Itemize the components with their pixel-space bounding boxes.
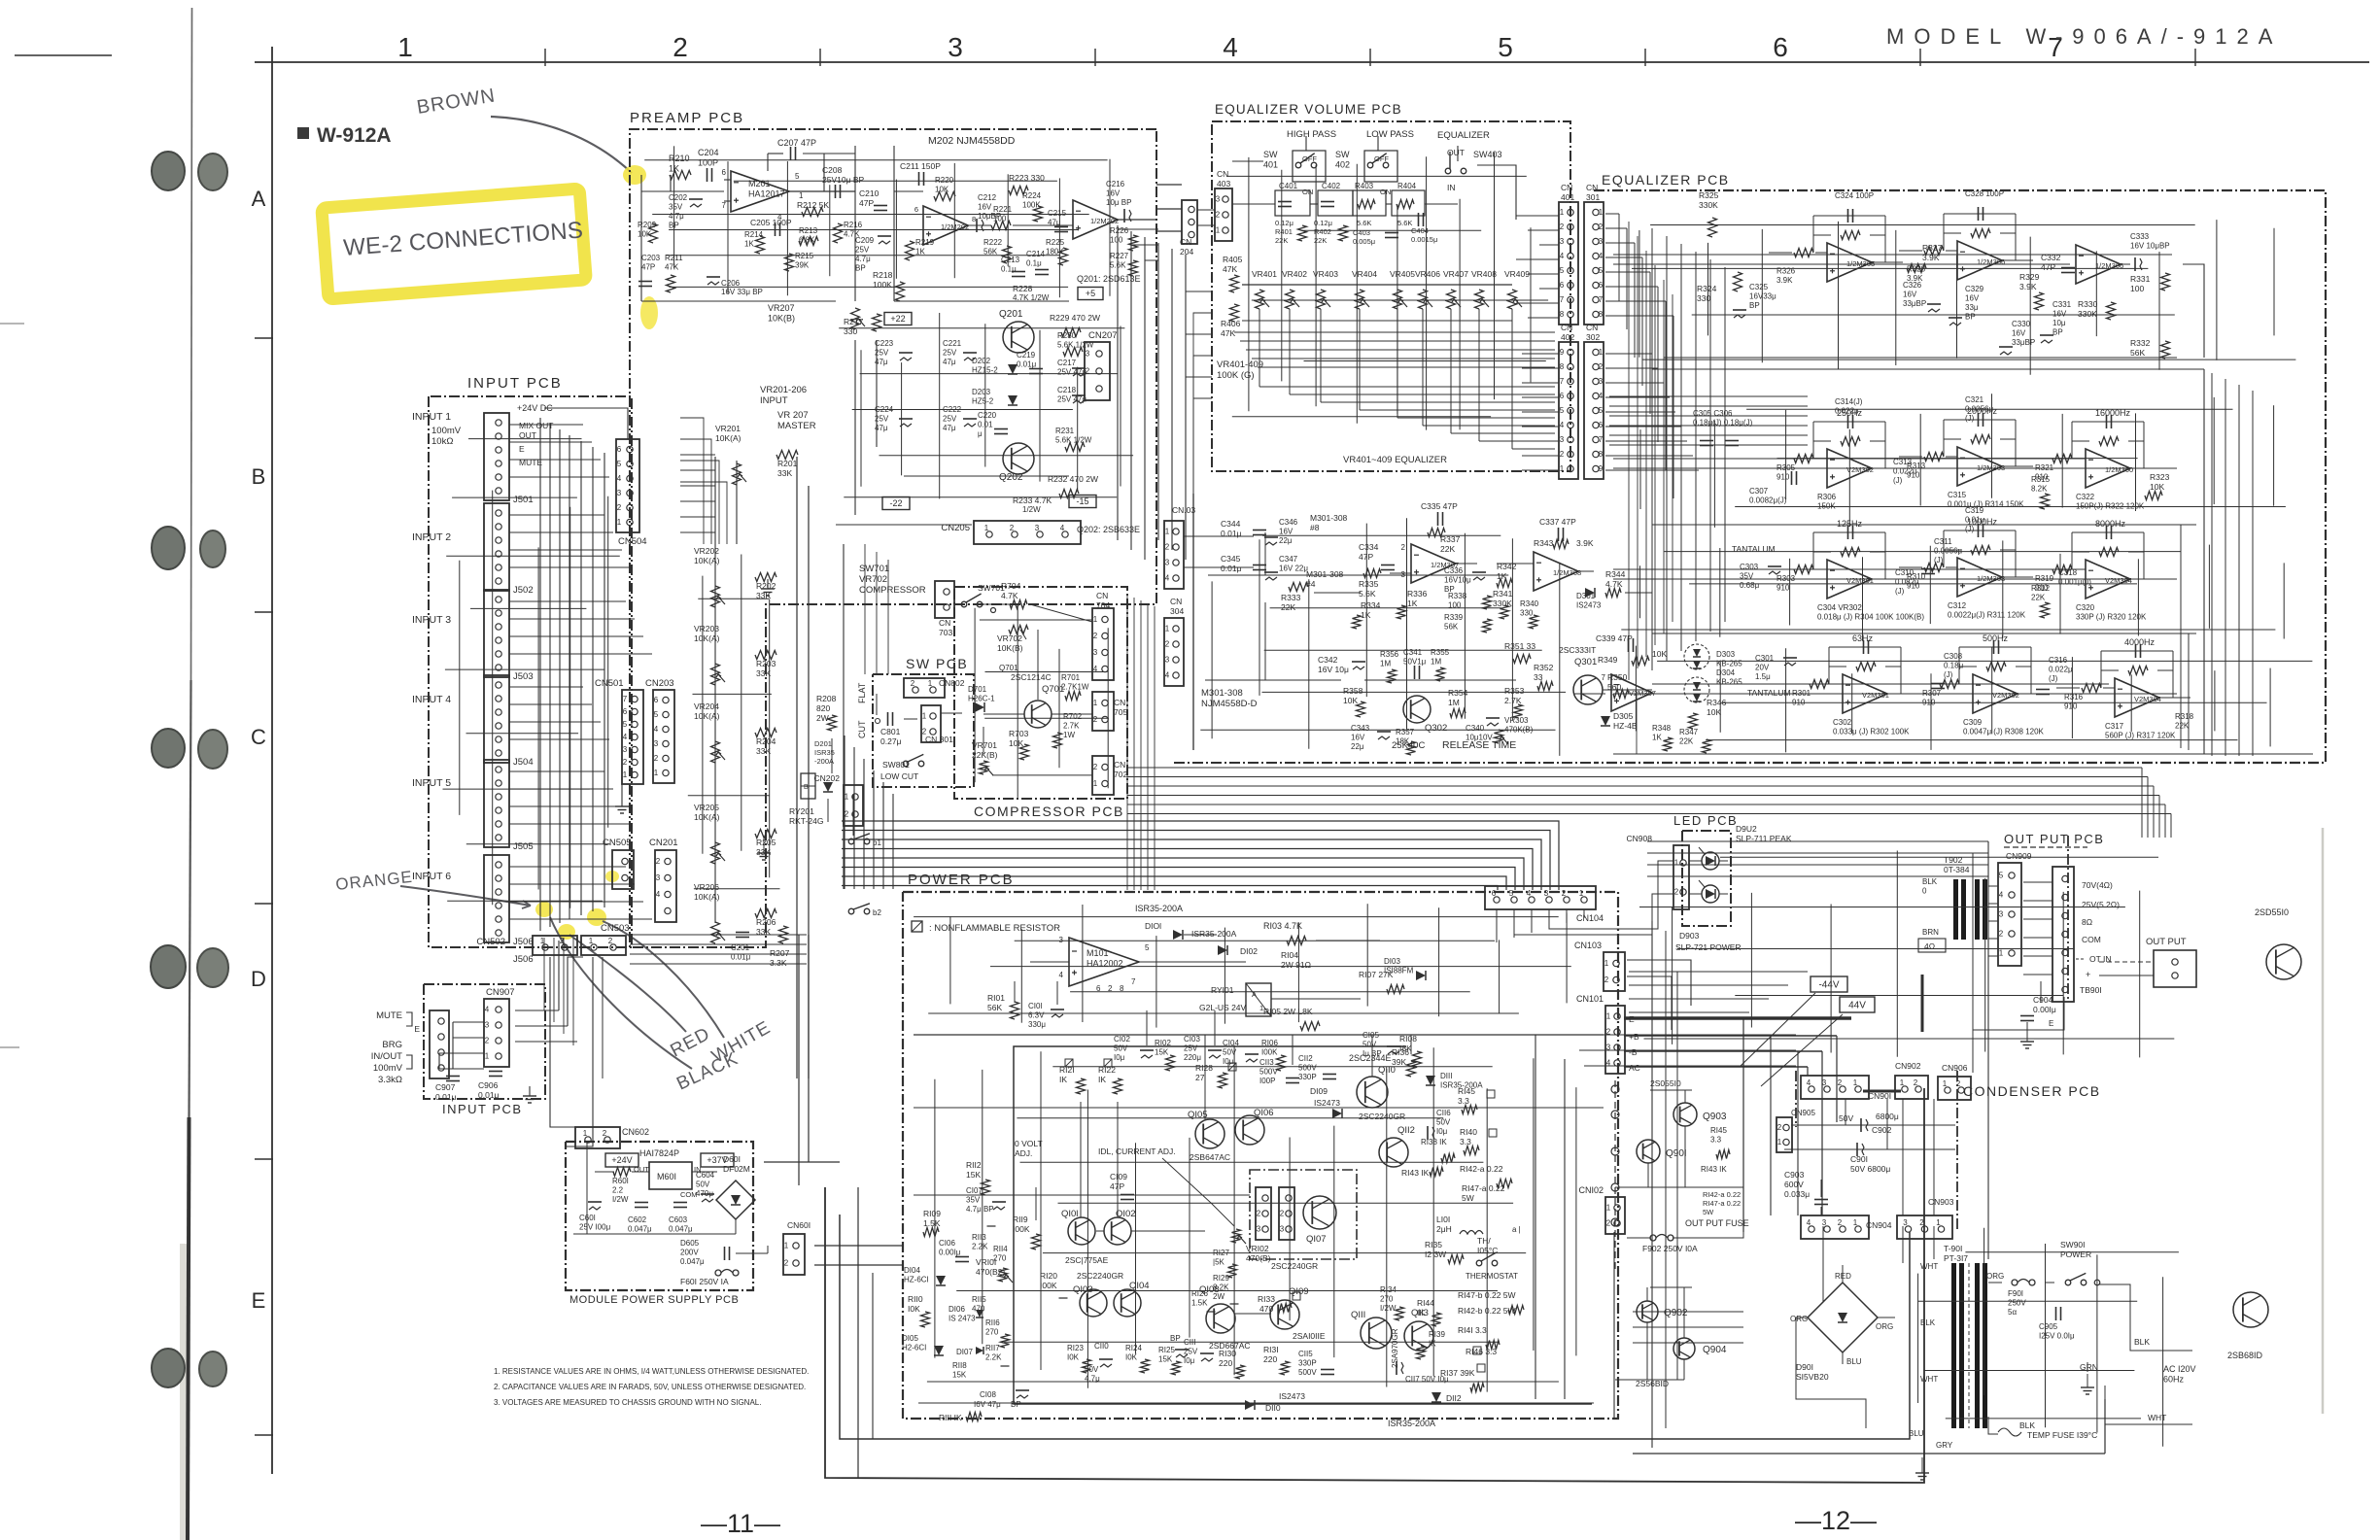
svg-text:3: 3 bbox=[1999, 910, 2004, 919]
svg-text:R341: R341 bbox=[1493, 589, 1513, 599]
connector CN902 bbox=[1895, 1076, 1928, 1099]
svg-text:VR405: VR405 bbox=[1390, 269, 1415, 279]
svg-text:220: 220 bbox=[1263, 1354, 1277, 1364]
wire input bus v bbox=[592, 447, 594, 911]
svg-text:R702: R702 bbox=[1063, 712, 1083, 721]
svg-text:MODEL W-906A/-912A: MODEL W-906A/-912A bbox=[1886, 24, 2282, 49]
svg-text:I25V 0.0Iμ: I25V 0.0Iμ bbox=[2039, 1332, 2075, 1341]
svg-text:3.3: 3.3 bbox=[1710, 1136, 1722, 1145]
wire eq feed v bbox=[1637, 236, 1638, 668]
svg-text:25V I00μ: 25V I00μ bbox=[579, 1223, 611, 1232]
svg-text:2: 2 bbox=[1674, 888, 1679, 897]
svg-text:15K: 15K bbox=[952, 1371, 967, 1380]
op-amp M202-a bbox=[923, 206, 968, 245]
svg-text:ADJ.: ADJ. bbox=[1015, 1148, 1032, 1158]
wire input row bbox=[509, 549, 622, 551]
svg-text:M301-308: M301-308 bbox=[1310, 513, 1348, 523]
op-amp M307r4 bbox=[1611, 674, 1652, 711]
transistor Q108 bbox=[1206, 1304, 1235, 1333]
wire cn103 area bbox=[1629, 971, 1808, 973]
label +22 box bbox=[884, 313, 912, 325]
svg-text:910: 910 bbox=[1776, 473, 1790, 482]
svg-text:100K: 100K bbox=[873, 280, 892, 290]
svg-text:VR701: VR701 bbox=[972, 740, 997, 750]
yellow dot CN505 a bbox=[535, 902, 553, 917]
svg-text:R221: R221 bbox=[993, 205, 1013, 214]
svg-text:2: 2 bbox=[1562, 889, 1567, 898]
svg-text:CII7 50V I0μ: CII7 50V I0μ bbox=[1405, 1375, 1449, 1384]
resistor R207 bbox=[779, 926, 788, 943]
svg-text:IS2473: IS2473 bbox=[1279, 1391, 1305, 1401]
svg-text:C330: C330 bbox=[2012, 320, 2031, 328]
svg-text:250V: 250V bbox=[2008, 1299, 2026, 1308]
svg-text:15K: 15K bbox=[1158, 1355, 1173, 1364]
svg-text:R334: R334 bbox=[1361, 600, 1381, 610]
svg-text:J501: J501 bbox=[513, 495, 534, 505]
svg-text:1: 1 bbox=[1093, 779, 1098, 788]
page border top rule bbox=[255, 61, 2369, 63]
svg-text:2SC1214C: 2SC1214C bbox=[1011, 672, 1052, 682]
svg-text:8: 8 bbox=[1599, 450, 1604, 459]
wire eq feed h bbox=[1609, 415, 1808, 417]
capacitor C401 bbox=[1275, 190, 1310, 216]
wire input row bbox=[509, 514, 604, 516]
svg-text:CI0l: CI0l bbox=[1028, 1002, 1042, 1010]
svg-text:1: 1 bbox=[799, 191, 804, 200]
svg-text:C215: C215 bbox=[1048, 209, 1067, 218]
pot VR203 bbox=[711, 664, 720, 685]
wire right column verts bbox=[1651, 921, 1653, 1448]
svg-text:IN: IN bbox=[1447, 183, 1456, 192]
diode D701 bbox=[975, 702, 984, 712]
svg-text:R402: R402 bbox=[1314, 227, 1331, 236]
svg-text:INPUT PCB: INPUT PCB bbox=[467, 375, 563, 392]
svg-text:RI28: RI28 bbox=[1195, 1063, 1213, 1073]
wire eq feed h bbox=[1609, 405, 1808, 407]
svg-text:3: 3 bbox=[654, 739, 659, 748]
wire sw-power bundle v bbox=[882, 782, 884, 889]
svg-text:4: 4 bbox=[654, 725, 659, 734]
wire preamp long v1 bbox=[796, 457, 798, 1078]
connector TB901 bbox=[2052, 867, 2074, 1002]
svg-text:CONDENSER PCB: CONDENSER PCB bbox=[1963, 1083, 2101, 1099]
wire t902-cn909 bbox=[1988, 885, 1998, 887]
svg-text:CII5: CII5 bbox=[1298, 1350, 1313, 1358]
wire m301 mesh2 bbox=[1314, 592, 1361, 594]
svg-text:CN906: CN906 bbox=[1942, 1063, 1968, 1073]
svg-text:820: 820 bbox=[816, 703, 830, 713]
connector CN802 bbox=[904, 678, 945, 698]
connector CN102 bbox=[1605, 1197, 1625, 1234]
wire eq feed v bbox=[1680, 309, 1682, 610]
wire eq feed v bbox=[1663, 280, 1665, 633]
svg-text:BLK: BLK bbox=[1922, 877, 1938, 886]
svg-text:BP: BP bbox=[1749, 301, 1760, 310]
svg-text:3: 3 bbox=[1086, 350, 1090, 359]
ground c904 bbox=[2020, 1041, 2034, 1043]
svg-text:100: 100 bbox=[2130, 284, 2144, 293]
svg-text:0.18μ: 0.18μ bbox=[1944, 662, 1964, 670]
svg-text:RI39: RI39 bbox=[1429, 1330, 1445, 1339]
svg-text:Q202: Q202 bbox=[999, 472, 1023, 483]
svg-text:4: 4 bbox=[656, 890, 661, 899]
transistor Q904 bbox=[1673, 1338, 1695, 1359]
svg-text:J504: J504 bbox=[513, 757, 534, 768]
svg-text:DI07: DI07 bbox=[956, 1348, 973, 1356]
svg-text:MASTER: MASTER bbox=[777, 421, 816, 431]
svg-text:8: 8 bbox=[1560, 310, 1565, 319]
svg-text:2SA970GR: 2SA970GR bbox=[1391, 1328, 1399, 1368]
svg-text:702: 702 bbox=[1114, 770, 1127, 779]
svg-text:R328: R328 bbox=[1907, 265, 1926, 274]
wire condenser-t901 bbox=[1822, 1226, 1824, 1302]
svg-text:470(B): 470(B) bbox=[1246, 1253, 1271, 1263]
svg-text:220μ: 220μ bbox=[1184, 1053, 1201, 1062]
svg-text:VR207: VR207 bbox=[768, 303, 795, 313]
svg-text:R331: R331 bbox=[2130, 274, 2151, 284]
wire preamp-input link bbox=[680, 454, 715, 456]
svg-text:CN502: CN502 bbox=[476, 937, 505, 947]
svg-text:7: 7 bbox=[1602, 673, 1606, 682]
svg-text:R60I: R60I bbox=[612, 1177, 629, 1185]
wire cn502 down bbox=[550, 957, 575, 1127]
wire cn504 over bbox=[544, 408, 628, 439]
wire q902 feed bbox=[1633, 1311, 1743, 1313]
svg-text:2SB647AC: 2SB647AC bbox=[1190, 1152, 1230, 1162]
scan artefact right edge bbox=[2322, 828, 2325, 1414]
svg-text:0.0015μ: 0.0015μ bbox=[1411, 235, 1437, 244]
svg-text:35V: 35V bbox=[669, 203, 683, 212]
svg-text:4.7K: 4.7K bbox=[1001, 591, 1018, 600]
svg-text:2: 2 bbox=[1560, 222, 1565, 231]
svg-text:2W: 2W bbox=[1213, 1292, 1224, 1301]
wire input row bbox=[509, 918, 652, 920]
svg-text:9: 9 bbox=[1560, 348, 1565, 357]
svg-text:6: 6 bbox=[914, 205, 918, 214]
connector CN901 bbox=[1801, 1076, 1869, 1099]
connector CN401 bbox=[1559, 202, 1578, 325]
svg-text:0.033μ (J) R302 100K: 0.033μ (J) R302 100K bbox=[1833, 728, 1910, 736]
diode D301 bbox=[1585, 588, 1595, 598]
svg-text:3.9K: 3.9K bbox=[2019, 282, 2037, 291]
svg-text:EQUALIZER VOLUME PCB: EQUALIZER VOLUME PCB bbox=[1215, 102, 1402, 117]
svg-text:25V10μ BP: 25V10μ BP bbox=[822, 175, 865, 185]
bridge rectifier D901 bbox=[1808, 1283, 1878, 1352]
svg-text:R704: R704 bbox=[1001, 581, 1021, 591]
svg-text:33μBP: 33μBP bbox=[1903, 299, 1926, 308]
svg-text:1: 1 bbox=[1999, 949, 2004, 958]
ground input pcb bbox=[523, 1095, 536, 1097]
svg-text:16V 33μ BP: 16V 33μ BP bbox=[721, 288, 763, 296]
svg-text:I0μ: I0μ bbox=[1436, 1127, 1448, 1136]
wire mid bundle h bbox=[842, 868, 1515, 891]
diode-pair D304 bbox=[1684, 677, 1709, 702]
wire VR402 drop bbox=[1289, 309, 1291, 394]
svg-text:10K(A): 10K(A) bbox=[694, 556, 720, 565]
transformer T902 bbox=[1953, 879, 1958, 940]
svg-text:4: 4 bbox=[1527, 889, 1532, 898]
svg-text:CN: CN bbox=[1561, 323, 1572, 332]
svg-text:1: 1 bbox=[1604, 959, 1609, 968]
svg-text:C905: C905 bbox=[2039, 1322, 2058, 1331]
svg-text:1W: 1W bbox=[1063, 731, 1075, 739]
wire sw-power bundle v bbox=[873, 770, 875, 889]
wire mesh eq volume bbox=[1226, 175, 1527, 177]
svg-text:(J): (J) bbox=[1965, 414, 1975, 423]
svg-text:R329: R329 bbox=[2019, 272, 2040, 282]
svg-text:4.7μ: 4.7μ bbox=[855, 255, 871, 263]
svg-text:RI24: RI24 bbox=[1125, 1344, 1142, 1352]
wire cn103 out bbox=[1627, 960, 1691, 1006]
svg-text:(J): (J) bbox=[1895, 587, 1905, 596]
wire input row bbox=[509, 738, 609, 740]
grid tick row 4 bbox=[255, 1434, 273, 1436]
svg-text:16V: 16V bbox=[1965, 294, 1980, 303]
wire m201 out bbox=[789, 190, 855, 192]
resistor R206 bbox=[755, 909, 776, 918]
wire cn302 right bbox=[1605, 367, 1658, 369]
svg-text:IK: IK bbox=[1098, 1075, 1106, 1084]
svg-text:2: 2 bbox=[1606, 1219, 1611, 1228]
svg-text:6.8K: 6.8K bbox=[799, 236, 815, 245]
svg-text:VR401-409: VR401-409 bbox=[1217, 359, 1263, 370]
svg-text:RI36: RI36 bbox=[1392, 1047, 1409, 1057]
connector CN903 bbox=[1897, 1215, 1952, 1239]
wire upper bundle h bbox=[1127, 785, 2154, 787]
svg-text:2: 2 bbox=[1604, 975, 1609, 984]
svg-text:2: 2 bbox=[654, 754, 659, 763]
svg-text:3.3K: 3.3K bbox=[770, 958, 787, 968]
svg-text:1: 1 bbox=[1579, 889, 1584, 898]
svg-text:R404: R404 bbox=[1397, 182, 1417, 190]
svg-text:2: 2 bbox=[1599, 222, 1604, 231]
svg-text:Q302: Q302 bbox=[1425, 723, 1447, 734]
svg-text:3: 3 bbox=[1822, 1218, 1827, 1227]
wire t901 gnd bbox=[1987, 1434, 1989, 1454]
svg-text:C333: C333 bbox=[2130, 232, 2150, 241]
wire cn104 drops bbox=[1496, 909, 1498, 942]
svg-text:R355: R355 bbox=[1431, 648, 1450, 657]
wire preamp long v2 bbox=[808, 486, 810, 1078]
svg-text:b2: b2 bbox=[873, 908, 881, 917]
svg-text:C218: C218 bbox=[1057, 386, 1077, 394]
fuse F601 bbox=[715, 1270, 721, 1276]
wire input row bbox=[509, 635, 643, 637]
svg-text:INPUT 3: INPUT 3 bbox=[412, 614, 451, 626]
svg-text:5: 5 bbox=[795, 172, 800, 181]
svg-text:1: 1 bbox=[654, 769, 659, 777]
svg-text:10K(A): 10K(A) bbox=[694, 812, 720, 822]
INPUT PCB border bbox=[429, 396, 632, 947]
svg-text:COMPRESSOR: COMPRESSOR bbox=[859, 585, 926, 596]
wire eq right drops bbox=[2211, 373, 2213, 756]
svg-text:HZ-6CI: HZ-6CI bbox=[904, 1276, 929, 1284]
svg-text:4: 4 bbox=[623, 733, 628, 741]
svg-text:3: 3 bbox=[1560, 237, 1565, 246]
wire mesh preamp mid bbox=[839, 327, 1124, 329]
svg-text:2: 2 bbox=[1010, 524, 1015, 532]
wire VR409 drop bbox=[1511, 309, 1513, 449]
svg-text:2: 2 bbox=[1093, 715, 1098, 724]
yellow dot CN201 bbox=[587, 908, 606, 926]
svg-text:50V: 50V bbox=[1114, 1044, 1128, 1053]
svg-text:15K: 15K bbox=[966, 1170, 981, 1180]
svg-text:D701: D701 bbox=[968, 685, 987, 694]
svg-text:910: 910 bbox=[1776, 584, 1790, 593]
svg-text:INPUT 2: INPUT 2 bbox=[412, 531, 451, 543]
svg-text:+22: +22 bbox=[890, 314, 905, 324]
svg-text:70V(4Ω): 70V(4Ω) bbox=[2082, 880, 2113, 890]
svg-text:C223: C223 bbox=[875, 339, 894, 348]
wire +B bbox=[1624, 1035, 1837, 1037]
wire VR408 drop bbox=[1478, 309, 1480, 441]
transistor Q105 bbox=[1195, 1119, 1224, 1148]
svg-text:BLK: BLK bbox=[1920, 1318, 1936, 1327]
svg-text:R228: R228 bbox=[1013, 284, 1033, 293]
wire cn301 right bbox=[1605, 242, 1635, 244]
svg-text:Q201: Q201 bbox=[999, 309, 1023, 320]
svg-text:47P: 47P bbox=[641, 263, 655, 272]
svg-text:HIGH PASS: HIGH PASS bbox=[1287, 129, 1336, 140]
svg-text:2: 2 bbox=[1165, 543, 1170, 552]
resistor R203 bbox=[755, 651, 776, 660]
wire input row bbox=[509, 653, 652, 655]
svg-text:SW701: SW701 bbox=[859, 564, 889, 574]
svg-text:3: 3 bbox=[1599, 377, 1604, 386]
connector J502 bbox=[484, 503, 509, 591]
wire mesh preamp lower bbox=[698, 598, 769, 599]
svg-text:R349: R349 bbox=[1598, 655, 1618, 665]
svg-text:R323: R323 bbox=[2150, 472, 2170, 482]
svg-text:R306: R306 bbox=[1817, 493, 1837, 501]
svg-text:SW: SW bbox=[1335, 150, 1350, 159]
svg-text:IK: IK bbox=[1417, 1308, 1425, 1318]
resistor R216 bbox=[834, 223, 843, 243]
connector CN505 bbox=[612, 850, 634, 889]
capacitor C402 bbox=[1318, 190, 1353, 216]
svg-text:56K: 56K bbox=[987, 1003, 1002, 1012]
resistor R214 bbox=[756, 236, 765, 254]
wire cn907 mesh bbox=[453, 1021, 484, 1023]
svg-text:CN503: CN503 bbox=[601, 923, 630, 934]
bridge rectifier D601 bbox=[716, 1181, 755, 1219]
transistor Q106 bbox=[1235, 1115, 1264, 1145]
punch hole pair y=770 bbox=[152, 729, 185, 768]
svg-text:RI05 2W L8K: RI05 2W L8K bbox=[1263, 1007, 1313, 1016]
svg-text:HA12017: HA12017 bbox=[748, 189, 785, 199]
svg-text:4: 4 bbox=[1599, 392, 1604, 400]
svg-text:5.6K: 5.6K bbox=[1357, 219, 1371, 227]
connector J506 bbox=[484, 855, 509, 942]
svg-text:R214: R214 bbox=[744, 230, 764, 239]
wire cn302 right bbox=[1605, 382, 1664, 384]
svg-text:6: 6 bbox=[1773, 32, 1788, 62]
resistor R403 bbox=[1353, 190, 1386, 216]
wire input bus v bbox=[559, 429, 561, 923]
wire vr column bbox=[714, 457, 716, 923]
svg-text:5: 5 bbox=[1599, 266, 1604, 275]
svg-text:R212 5K: R212 5K bbox=[797, 200, 829, 210]
svg-text:3: 3 bbox=[1216, 195, 1221, 204]
wire input bus v bbox=[569, 435, 570, 919]
svg-text:RII8: RII8 bbox=[952, 1361, 967, 1370]
resistor R202 bbox=[755, 573, 776, 582]
svg-text:I0μ: I0μ bbox=[1184, 1356, 1195, 1365]
svg-text:IS2473: IS2473 bbox=[1576, 601, 1602, 610]
wire mesh m301 block bbox=[1262, 534, 1500, 536]
label 44V box bbox=[1840, 997, 1875, 1012]
svg-text:R401: R401 bbox=[1275, 227, 1293, 236]
svg-text:2SAI0IIE: 2SAI0IIE bbox=[1293, 1331, 1326, 1341]
op-amp M306b bbox=[2076, 245, 2121, 284]
op-amp M201 bbox=[731, 171, 789, 212]
svg-text:9: 9 bbox=[1599, 464, 1604, 473]
svg-text:+5: +5 bbox=[1086, 289, 1095, 298]
svg-text:56K: 56K bbox=[1444, 623, 1459, 632]
wire mesh power lower bbox=[1052, 1066, 1492, 1068]
svg-text:47μ: 47μ bbox=[943, 424, 956, 432]
wire eqvol left bus bbox=[1186, 291, 1212, 525]
svg-text:3.9K: 3.9K bbox=[1576, 538, 1594, 548]
wire cn206 to preamp bbox=[680, 418, 704, 544]
svg-text:INPUT 6: INPUT 6 bbox=[412, 871, 451, 882]
svg-text:0.047μ: 0.047μ bbox=[680, 1257, 705, 1266]
svg-text:56K: 56K bbox=[983, 248, 998, 257]
svg-text:VR403: VR403 bbox=[1313, 269, 1338, 279]
grid tick col 4 bbox=[1369, 49, 1371, 66]
svg-text:IS 2473: IS 2473 bbox=[949, 1315, 976, 1323]
svg-text:RI29: RI29 bbox=[1213, 1274, 1229, 1283]
binding scan line upper bbox=[191, 8, 192, 680]
wire cn601 down pair bbox=[857, 1187, 859, 1478]
wire VR403 drop bbox=[1320, 309, 1322, 402]
svg-text:910: 910 bbox=[1907, 582, 1920, 591]
svg-text:D301: D301 bbox=[1576, 592, 1596, 600]
svg-text:C: C bbox=[251, 725, 266, 749]
svg-text:10K: 10K bbox=[638, 230, 652, 239]
svg-text:10K(A): 10K(A) bbox=[694, 633, 720, 643]
svg-text:R218: R218 bbox=[873, 270, 893, 280]
diode D305 bbox=[1601, 716, 1610, 726]
svg-text:0.1μ: 0.1μ bbox=[1026, 259, 1042, 268]
svg-text:C206: C206 bbox=[721, 279, 741, 288]
wire m301 mesh1 bbox=[1184, 535, 1254, 537]
svg-text:560P (J) R317 120K: 560P (J) R317 120K bbox=[2105, 732, 2176, 740]
svg-text:4000Hz: 4000Hz bbox=[2124, 637, 2156, 647]
binding crease light band bbox=[180, 1244, 189, 1540]
svg-text:2.2: 2.2 bbox=[612, 1186, 624, 1195]
svg-text:2W 91Ω: 2W 91Ω bbox=[1281, 960, 1311, 970]
svg-text:4: 4 bbox=[1807, 1218, 1811, 1227]
svg-text:BP: BP bbox=[855, 264, 866, 273]
diode-pair D303 bbox=[1684, 644, 1709, 669]
svg-text:RI44: RI44 bbox=[1417, 1298, 1434, 1308]
svg-text:7: 7 bbox=[1560, 295, 1565, 304]
capacitor C601 bbox=[588, 1201, 602, 1203]
svg-text:OUT PUT: OUT PUT bbox=[2146, 937, 2187, 947]
wire mesh compressor bbox=[980, 619, 1093, 621]
svg-text:-B: -B bbox=[1629, 1047, 1638, 1057]
svg-text:0.27μ: 0.27μ bbox=[880, 736, 902, 746]
svg-text:RKT-24G: RKT-24G bbox=[789, 816, 823, 826]
svg-text:R703: R703 bbox=[1009, 729, 1029, 738]
svg-text:R222: R222 bbox=[983, 238, 1003, 247]
svg-text:R220: R220 bbox=[935, 176, 954, 185]
svg-text:C209: C209 bbox=[855, 236, 875, 245]
svg-text:4.7K 1/2W: 4.7K 1/2W bbox=[1013, 293, 1050, 302]
wire bottom-left elbow bbox=[825, 1088, 1924, 1483]
svg-text:16V: 16V bbox=[2012, 329, 2026, 338]
